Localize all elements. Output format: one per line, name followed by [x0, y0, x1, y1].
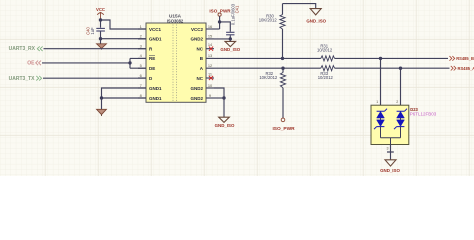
svg-text:1: 1	[376, 100, 378, 104]
wire pin8 GND1	[102, 97, 147, 99]
pin 14 NC	[197, 42, 215, 52]
svg-text:8: 8	[140, 93, 142, 98]
wire pin9 GND2	[214, 97, 224, 99]
svg-text:ISO3082: ISO3082	[167, 18, 184, 23]
resistor R32 (pull A to ISO_PWR)	[259, 68, 285, 118]
ground GND_ISO (near C41)	[220, 39, 240, 52]
svg-text:ISO_PWR: ISO_PWR	[272, 126, 295, 132]
svg-text:9: 9	[209, 93, 211, 98]
pin 5 DE	[138, 63, 155, 71]
svg-text:10K/2012: 10K/2012	[259, 75, 278, 80]
wire B net (pin13 to port)	[214, 57, 448, 59]
wire UART3_TX to pin6 D	[43, 77, 146, 79]
node R32/A junction	[281, 67, 284, 70]
wire B to TVS	[380, 58, 382, 111]
node ISO_PWR branch junction	[218, 20, 221, 23]
pin 9 GND2	[190, 93, 214, 101]
power VCC	[96, 7, 105, 20]
pin 10 GND2	[190, 83, 214, 91]
svg-text:13: 13	[208, 53, 212, 58]
pin 2 GND1	[138, 34, 162, 42]
svg-text:5: 5	[140, 63, 142, 68]
node B/TVS junction	[379, 57, 382, 60]
pin 1 VCC1	[138, 24, 162, 32]
node pin15 junction	[229, 37, 232, 40]
pin 15 GND2	[190, 34, 214, 42]
svg-text:15: 15	[208, 34, 212, 39]
svg-text:RS485_B: RS485_B	[456, 56, 474, 61]
sheet background	[0, 0, 474, 176]
ground GND_ISO (top right)	[306, 9, 326, 24]
svg-text:VCC1: VCC1	[149, 27, 162, 32]
capacitor C40	[86, 20, 105, 39]
resistor R31 (series B)	[317, 44, 335, 61]
svg-text:VCC: VCC	[96, 7, 105, 12]
svg-text:GND_ISO: GND_ISO	[380, 168, 400, 173]
wire A net (pin12 to port)	[214, 67, 450, 69]
wire A to TVS	[400, 68, 402, 111]
op-amp U15A ISO3082 body	[146, 13, 206, 102]
port RS485_B	[450, 56, 474, 61]
wire UART3_RX to pin3 R	[44, 48, 147, 50]
diode D23 right pair	[394, 109, 407, 130]
wire VCC to pin1	[101, 20, 147, 29]
power ISO_PWR (top)	[209, 9, 231, 29]
wire branch to C41	[220, 22, 231, 32]
wire TVS pin3 to ground	[387, 145, 394, 160]
pin 11 NC	[197, 71, 215, 81]
wire R30 top to GND_ISO	[283, 4, 316, 9]
svg-text:3: 3	[140, 44, 142, 49]
pin 16 VCC2	[191, 24, 214, 32]
pin 8 GND1	[138, 93, 162, 101]
svg-text:GND_ISO: GND_ISO	[215, 123, 235, 128]
svg-text:P6TL12FB03: P6TL12FB03	[410, 112, 437, 117]
svg-text:UART3_RX: UART3_RX	[9, 46, 36, 52]
svg-text:2: 2	[396, 100, 398, 104]
capacitor C41	[226, 3, 240, 39]
node A/TVS junction	[399, 67, 402, 70]
svg-text:GND1: GND1	[149, 86, 162, 91]
svg-text:GND1: GND1	[149, 96, 162, 101]
pin 13 B	[200, 53, 214, 61]
wire TVS internal join	[381, 127, 401, 145]
port RS485_A	[451, 66, 474, 71]
port UART3_TX	[9, 76, 42, 82]
wire pin15 to GND_ISO	[214, 38, 230, 40]
svg-text:1: 1	[140, 24, 142, 29]
wire pin16 to ISO_PWR	[214, 28, 220, 30]
node R30/B junction	[281, 57, 284, 60]
pin 4 RE	[138, 53, 155, 61]
resistor R30 (pull B to GND_ISO)	[259, 4, 285, 59]
svg-text:GND_ISO: GND_ISO	[306, 18, 326, 23]
svg-text:16: 16	[208, 24, 212, 29]
svg-text:DE: DE	[149, 66, 155, 71]
svg-text:OE: OE	[27, 61, 35, 67]
svg-text:UART3_TX: UART3_TX	[9, 76, 36, 82]
svg-text:10/2012: 10/2012	[317, 48, 333, 53]
node VCC junction	[99, 18, 102, 21]
svg-text:1uF: 1uF	[90, 27, 95, 35]
diode array D23 body	[371, 100, 437, 150]
svg-text:6: 6	[140, 73, 142, 78]
wire pin10 GND2	[214, 88, 224, 98]
svg-text:NC: NC	[197, 76, 204, 81]
svg-text:2: 2	[140, 34, 142, 39]
svg-text:GND_ISO: GND_ISO	[220, 47, 240, 52]
svg-text:GND1: GND1	[149, 37, 162, 42]
svg-text:NC: NC	[197, 47, 204, 52]
node OE junction	[128, 61, 131, 64]
svg-text:7: 7	[140, 83, 142, 88]
svg-text:3: 3	[387, 146, 389, 150]
svg-text:RS485_A: RS485_A	[458, 66, 474, 71]
node GND1 junction	[99, 37, 102, 40]
svg-text:12: 12	[208, 63, 212, 68]
wire cap to pin2	[101, 38, 147, 40]
wire OE to RE/DE	[42, 58, 146, 68]
ground GND_ISO (below IC)	[215, 98, 235, 128]
node GND2 pins junction	[222, 96, 225, 99]
svg-text:0.1uF/0603: 0.1uF/0603	[230, 3, 235, 25]
ground GND (bottom left)	[97, 98, 107, 116]
svg-text:VCC2: VCC2	[191, 27, 204, 32]
pin 7 GND1	[138, 83, 162, 91]
wire pin7 GND1	[102, 88, 147, 98]
resistor R33 (series A)	[318, 66, 335, 81]
svg-text:RE: RE	[149, 56, 155, 61]
svg-text:GND2: GND2	[190, 86, 203, 91]
port UART3_RX	[9, 46, 43, 52]
svg-text:10K/2012: 10K/2012	[259, 17, 278, 22]
pin 6 D	[138, 73, 153, 81]
pin 12 A	[200, 63, 214, 71]
power ISO_PWR (bottom)	[272, 118, 295, 132]
ground GND_ISO (below D23)	[380, 160, 400, 173]
svg-text:11: 11	[208, 71, 212, 76]
svg-text:GND2: GND2	[190, 96, 203, 101]
svg-text:GND2: GND2	[190, 37, 203, 42]
node GND1 pins junction	[100, 96, 103, 99]
port OE	[27, 61, 41, 67]
diode D23 left pair	[374, 109, 387, 130]
svg-text:10/2012: 10/2012	[318, 75, 334, 80]
ground GND (top left)	[97, 39, 107, 50]
pin 3 R	[138, 44, 153, 52]
